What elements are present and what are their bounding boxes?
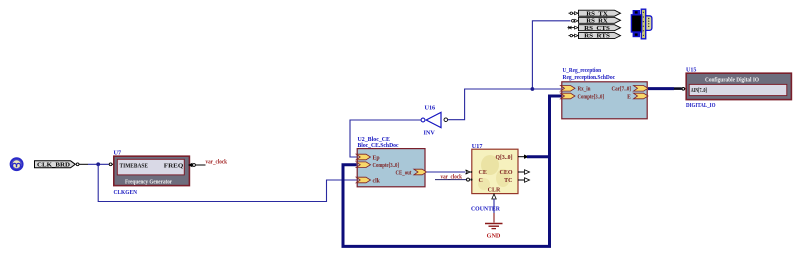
label U_Reg_reception — [563, 68, 616, 81]
svg-text:U16: U16 — [425, 105, 436, 112]
component U15 Configurable Digital IO body — [686, 73, 791, 99]
svg-text:var_clock: var_clock — [206, 158, 228, 165]
pin TC arrow of U17 — [518, 178, 530, 182]
wire clock net down to clk pin of U2 — [98, 164, 356, 201]
wire CE_out to U17 CE — [427, 171, 466, 173]
svg-text:C: C — [479, 178, 483, 184]
svg-text:CLKGEN: CLKGEN — [114, 189, 138, 196]
sheet entry clk — [356, 177, 380, 184]
DB9 connector icon — [631, 9, 651, 39]
wire INV output to Ep of U2 — [350, 120, 421, 157]
port RS_TX — [579, 10, 621, 17]
pin stub RS_TX — [569, 12, 579, 15]
pin circle at U7 TIMEBASE input — [109, 163, 114, 166]
label CLKGEN — [114, 189, 138, 196]
component U17 counter body — [472, 149, 518, 193]
label U15 — [686, 68, 696, 74]
svg-text:RS_RTS: RS_RTS — [584, 34, 611, 40]
pin Q[3..0] arrow of U17 — [518, 155, 529, 159]
port RS_RTS — [579, 33, 621, 40]
label U17 — [472, 143, 483, 150]
label INV — [424, 130, 436, 137]
svg-text:RS_CTS: RS_CTS — [584, 26, 611, 32]
svg-text:Car[7..0]: Car[7..0] — [612, 87, 632, 93]
svg-text:DIGITAL_IO: DIGITAL_IO — [686, 102, 716, 109]
net label var_clock (FREQ) — [206, 158, 228, 165]
svg-text:Configurable Digital IO: Configurable Digital IO — [705, 77, 759, 83]
svg-text:U_Reg_reception: U_Reg_reception — [563, 68, 602, 74]
sheet entry Compte[3..0] (U_Reg) — [561, 93, 605, 100]
sheet entry Ep — [356, 154, 379, 161]
svg-text:clk: clk — [373, 178, 381, 184]
pin CE arrow of U17 — [466, 170, 473, 174]
port RS_CTS — [579, 25, 621, 32]
pin CLR arrow of U17 — [492, 194, 496, 199]
wire var_clock to U17 C pin — [435, 179, 466, 181]
label U16 — [425, 105, 436, 112]
component U7 Frequency Generator body — [114, 156, 190, 186]
inverter U16 — [421, 112, 448, 127]
wire CLR to GND — [493, 199, 495, 223]
wire INV input from RS_RX net — [448, 89, 533, 120]
bus branch Q[3..0] to vertical bus — [527, 155, 550, 158]
svg-text:Q[3..0]: Q[3..0] — [496, 155, 513, 161]
wire junction to Rx_in — [532, 88, 561, 90]
svg-text:RS_TX: RS_TX — [586, 11, 608, 17]
ground symbol GND — [485, 224, 503, 240]
bus Compte[3..0] U2 to U17 Q and U_Reg — [343, 96, 562, 246]
pin stub RS_RX with circle — [572, 19, 579, 22]
svg-text:Ep: Ep — [373, 155, 380, 161]
port RS_RX — [579, 17, 621, 24]
clock icon — [11, 158, 23, 170]
sheet entry E — [627, 93, 648, 100]
wire CLK_BRD to U7 — [76, 163, 109, 166]
wire RS_RX vertical to port — [532, 21, 570, 89]
sheet symbol U2_Bloc_CE — [357, 149, 425, 187]
svg-text:TIMEBASE: TIMEBASE — [120, 163, 149, 170]
svg-text:TC: TC — [504, 178, 512, 184]
svg-text:E: E — [627, 94, 631, 100]
port CLK_BRD — [35, 161, 76, 169]
pin AIN input circle — [682, 88, 687, 91]
pin C circle of U17 — [467, 178, 473, 181]
label COUNTER — [471, 205, 500, 212]
svg-text:Frequency Generator: Frequency Generator — [125, 180, 172, 186]
pin CEO arrow of U17 — [518, 170, 530, 174]
sheet entry Car[7..0] — [612, 86, 649, 93]
sheet entry Rx_in — [561, 86, 592, 93]
svg-text:FREQ: FREQ — [164, 163, 184, 170]
net label var_clock (CE wire) — [441, 173, 463, 180]
svg-text:Rx_in: Rx_in — [578, 87, 592, 93]
svg-text:U2_Bloc_CE: U2_Bloc_CE — [358, 137, 391, 143]
svg-text:CE: CE — [479, 170, 487, 176]
svg-text:CE_out: CE_out — [396, 170, 412, 176]
svg-text:CLK_BRD: CLK_BRD — [37, 162, 71, 169]
junction A (clock net) — [96, 162, 100, 166]
svg-text:CEO: CEO — [499, 170, 512, 176]
sheet symbol U_Reg_reception — [562, 82, 647, 119]
label DIGITAL_IO — [686, 102, 716, 109]
pin stub RS_CTS no-connect x — [568, 26, 579, 29]
label U2_Bloc_CE — [358, 137, 399, 149]
svg-text:AIN[7..0]: AIN[7..0] — [691, 88, 707, 94]
pin stub RS_RTS — [569, 34, 579, 37]
svg-text:Compte[3..0]: Compte[3..0] — [373, 163, 400, 169]
sheet entry Compte[3..0] (U2) — [356, 162, 399, 169]
svg-text:Reg_reception.SchDoc: Reg_reception.SchDoc — [563, 75, 616, 81]
sheet entry CE_out — [396, 169, 427, 176]
svg-text:RS_RX: RS_RX — [586, 18, 608, 24]
junction B (RS_RX net) — [531, 87, 535, 91]
svg-text:INV: INV — [424, 130, 436, 137]
svg-text:COUNTER: COUNTER — [471, 205, 500, 212]
pin FREQ output with arrowhead and circle — [188, 163, 206, 167]
svg-text:GND: GND — [487, 232, 501, 239]
bus Car[7..0] to DIGITAL_IO — [648, 87, 682, 90]
svg-text:Compte[3..0]: Compte[3..0] — [578, 94, 605, 100]
svg-text:CLR: CLR — [488, 187, 501, 193]
label U7 — [114, 150, 122, 157]
